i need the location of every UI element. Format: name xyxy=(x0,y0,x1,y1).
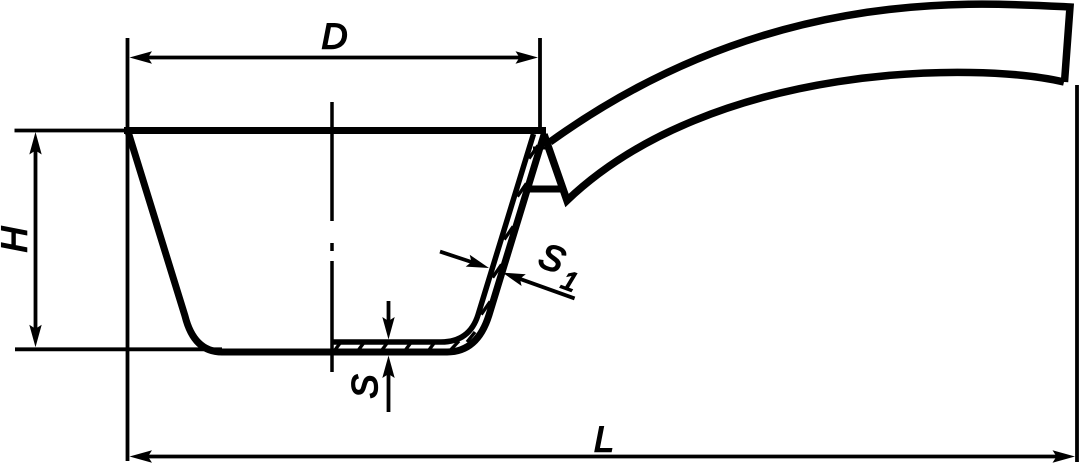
label H xyxy=(2,226,27,251)
H top extension xyxy=(15,129,125,133)
S1 dimension lines xyxy=(440,252,473,263)
label L xyxy=(595,427,611,452)
pan inner contour (section) xyxy=(333,134,534,342)
H top arrow xyxy=(29,132,41,155)
section hatch bottom xyxy=(334,341,460,352)
D right arrow xyxy=(516,51,539,63)
L left arrow xyxy=(130,450,153,462)
label D xyxy=(323,24,347,49)
H dimension line xyxy=(34,150,38,329)
left vertical extension (D top / L bottom) xyxy=(126,38,130,461)
H bottom extension xyxy=(15,347,222,351)
S1 right arrow xyxy=(503,273,526,286)
bracket bottom line xyxy=(525,186,564,193)
bracket top line xyxy=(533,147,551,150)
centerline xyxy=(330,102,334,372)
label S1 xyxy=(533,242,584,291)
H bottom arrow xyxy=(29,325,41,348)
label S xyxy=(352,375,377,398)
S dimension lines xyxy=(387,301,391,323)
pan rim top line xyxy=(124,127,546,134)
handle upper edge and right end cap xyxy=(550,4,1070,142)
S top arrow xyxy=(382,317,394,340)
right L extension xyxy=(1075,85,1079,462)
L right arrow xyxy=(1053,450,1076,462)
right D extension xyxy=(538,38,542,129)
handle left end cap and lower edge xyxy=(544,72,1064,200)
S bottom arrow xyxy=(382,356,394,379)
D left arrow xyxy=(130,51,153,63)
D dimension line xyxy=(147,56,521,60)
S1 left arrow xyxy=(466,255,489,268)
pan outer contour xyxy=(128,132,545,353)
section hatch wall xyxy=(467,146,538,343)
L dimension line xyxy=(147,455,1058,459)
